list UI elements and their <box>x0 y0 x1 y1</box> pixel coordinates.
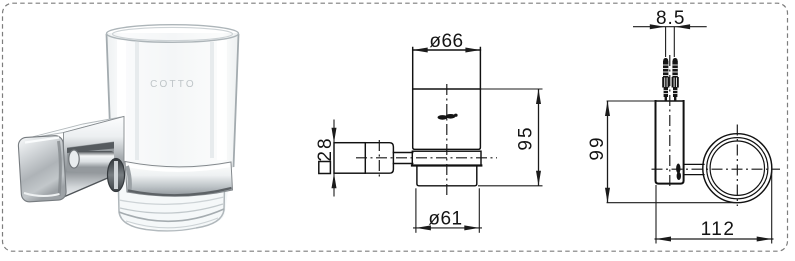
bracket long face bottom edge <box>64 171 125 197</box>
dimension 99 lines <box>607 101 738 203</box>
dimension 112 lines <box>655 170 774 244</box>
glass vertical highlights <box>117 40 227 162</box>
arm rod bottom line <box>393 163 412 165</box>
rod side view <box>684 163 704 165</box>
ring band lower shade <box>128 188 232 195</box>
centerline vertical (arm screw axis) <box>378 140 380 177</box>
svg-text:95: 95 <box>515 125 536 150</box>
rod recess shadow <box>67 142 114 175</box>
svg-text:COTTO: COTTO <box>150 79 196 90</box>
dimension ø61 arrows <box>416 225 479 230</box>
svg-text:112: 112 <box>701 219 736 240</box>
centerline horizontal (side view) <box>652 168 781 170</box>
dimension ø66 arrows <box>413 48 481 53</box>
glass upper side edges <box>107 34 239 167</box>
dimension 8.5 lines <box>633 27 707 57</box>
screw anchor right <box>672 58 679 101</box>
cup shoulder line <box>413 88 481 90</box>
ring middle circle <box>707 138 768 199</box>
centerline vertical (ring axis) <box>736 125 738 207</box>
arm block <box>365 143 393 174</box>
bracket long right face <box>64 117 125 198</box>
svg-text:8.5: 8.5 <box>656 8 685 29</box>
svg-text:ø66: ø66 <box>429 31 463 52</box>
glass base rings <box>119 197 224 231</box>
dimension 95 arrows <box>536 89 541 186</box>
dimension 8.5 arrows <box>650 24 690 29</box>
dimension square28 line <box>333 120 335 197</box>
wall plate side view <box>656 100 684 102</box>
ring joint knob <box>108 159 125 192</box>
ring inner circle <box>710 141 764 195</box>
glass tumbler upper body <box>107 33 239 168</box>
set screw mark side view <box>676 164 681 181</box>
cup top edge / ø66 dimension line <box>413 49 481 51</box>
arm rod top line <box>393 152 412 154</box>
dimension ø61 extension lines <box>413 188 482 233</box>
holder band (ring front) <box>412 151 481 165</box>
rod flange <box>69 150 79 168</box>
ring band top highlight <box>128 166 230 171</box>
ring band left shade <box>127 166 130 191</box>
glass top rim <box>107 25 239 43</box>
ring outer circle <box>703 134 772 203</box>
svg-text:ø61: ø61 <box>428 208 462 229</box>
svg-text:28: 28 <box>315 136 336 161</box>
square symbol of square28 <box>319 162 331 174</box>
cup lower body <box>417 166 477 186</box>
chrome holder ring band <box>125 162 233 197</box>
bracket front cap <box>18 135 67 202</box>
screw anchor left <box>662 58 669 101</box>
screw slot mark on cup <box>438 114 458 120</box>
centerline horizontal (front view) <box>356 157 497 159</box>
centerline vertical (cup axis) <box>446 84 448 197</box>
centerline vertical (screw axis side view) <box>669 55 671 188</box>
cup body outline <box>413 48 481 150</box>
svg-text:99: 99 <box>587 135 608 160</box>
glass lower side edges <box>119 187 225 230</box>
bracket top face <box>22 117 124 140</box>
dimension 112 arrows <box>656 237 772 242</box>
dimension 95 extension lines <box>478 89 543 186</box>
mounting rod <box>70 151 114 168</box>
wall plate (front view left) <box>334 143 365 174</box>
glass lower body <box>115 163 232 231</box>
dimension square28 arrows <box>332 128 337 189</box>
holder band bottom thick edge <box>412 164 481 166</box>
dimension 99 arrows <box>605 101 610 203</box>
